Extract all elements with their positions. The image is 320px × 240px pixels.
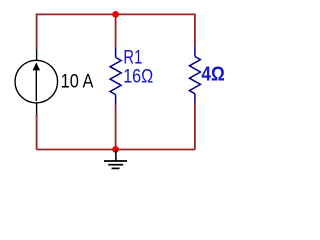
resistor R1 16ohm [110, 47, 121, 105]
wire bottom rail [37, 149, 195, 151]
wire right rail upper [194, 14, 196, 47]
wire left rail upper [36, 14, 38, 50]
node junction dot top [112, 11, 119, 18]
wire right rail lower [194, 103, 196, 149]
wire middle lower [115, 105, 117, 150]
ground [104, 149, 127, 168]
wire top rail [37, 13, 195, 15]
current source I1 10 A [15, 50, 58, 115]
wire middle upper [115, 14, 117, 47]
svg-text:16Ω: 16Ω [123, 65, 153, 87]
svg-text:10 A: 10 A [61, 70, 94, 92]
wire left rail lower [36, 114, 38, 150]
node junction dot bottom [112, 146, 119, 153]
resistor R2 4ohm [189, 46, 200, 103]
svg-text:4Ω: 4Ω [201, 62, 224, 85]
